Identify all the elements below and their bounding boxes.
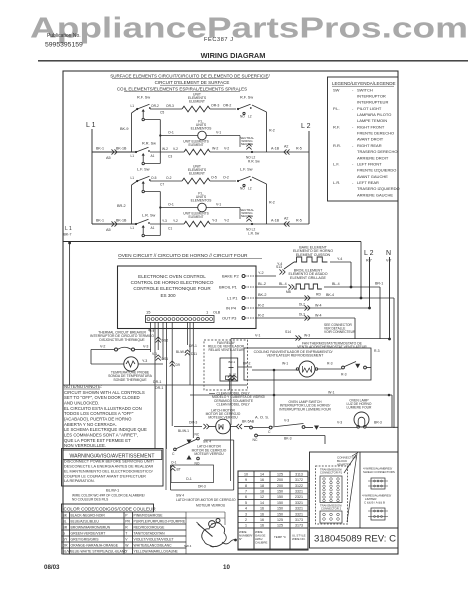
svg-text:VOIR CONNECTEUR: VOIR CONNECTEUR	[324, 330, 356, 334]
svg-text:LEFT FRONT: LEFT FRONT	[357, 161, 382, 166]
svg-text:L1: L1	[131, 226, 135, 230]
svg-text:ELEMENTOS: ELEMENTOS	[191, 198, 213, 202]
svg-text:L 1: L 1	[65, 226, 72, 232]
svg-text:OR-3: OR-3	[166, 104, 174, 108]
svg-text:Y-3: Y-3	[212, 219, 217, 223]
svg-text:NC: NC	[195, 433, 200, 437]
svg-text:200: 200	[277, 478, 283, 482]
svg-text:LUMIERE FOUR: LUMIERE FOUR	[347, 406, 373, 410]
svg-text:BL: BL	[63, 520, 67, 524]
switch routing loop	[144, 119, 160, 121]
svg-text:Y-2: Y-2	[224, 219, 229, 223]
svg-text:10: 10	[223, 564, 230, 571]
svg-text:TAN/TOSTADO/TAN: TAN/TOSTADO/TAN	[134, 532, 166, 536]
svg-text:OR: OR	[63, 544, 69, 548]
svg-text:FRENTE IZQUIERDO: FRENTE IZQUIERDO	[357, 168, 396, 173]
svg-text:CONNECTOR P1: CONNECTOR P1	[320, 471, 343, 475]
svg-text:C && B / A && B: C && B / A && B	[364, 501, 385, 505]
connector detail box	[310, 452, 399, 548]
latch switch box	[204, 439, 234, 441]
svg-text:L1: L1	[131, 104, 135, 108]
svg-text:V-2: V-2	[173, 147, 178, 151]
mouse foot	[210, 546, 216, 547]
svg-text:WHITE/BLANCO/BLANC: WHITE/BLANCO/BLANC	[134, 544, 173, 548]
svg-text:125: 125	[277, 472, 283, 476]
pointer lines	[344, 455, 356, 473]
svg-text:3321: 3321	[295, 507, 303, 511]
svg-text:L2: L2	[248, 115, 252, 119]
svg-text:A-1B: A-1B	[271, 147, 280, 151]
wire upper row	[150, 108, 182, 110]
svg-text:TRASERO IZQUIERDO: TRASERO IZQUIERDO	[357, 186, 400, 191]
wire DR-1 rail	[63, 384, 247, 386]
svg-text:16: 16	[260, 512, 264, 516]
svg-text:GREY/GRIS/GRIS: GREY/GRIS/GRIS	[71, 538, 100, 542]
svg-text:ELEMENT: ELEMENT	[188, 215, 203, 219]
svg-text:3321: 3321	[295, 512, 303, 516]
svg-text:18: 18	[260, 490, 264, 494]
svg-text:A. O. S.: A. O. S.	[255, 415, 269, 420]
color code table	[62, 512, 70, 518]
fan switch	[342, 366, 345, 369]
svg-text:ABIERTA Y NO CERRADA.: ABIERTA Y NO CERRADA.	[64, 422, 117, 427]
svg-text:RELAIS VENTILATEUR: RELAIS VENTILATEUR	[208, 348, 244, 352]
fan relay box	[204, 340, 248, 390]
svg-text:BK-3: BK-3	[284, 437, 292, 441]
svg-text:AVANT DROIT: AVANT DROIT	[357, 137, 384, 142]
wire L1 drop	[91, 129, 93, 224]
svg-text:COUPER LE COURANT AVANT D'EFFE: COUPER LE COURANT AVANT D'EFFECTUER	[64, 474, 146, 478]
svg-text:RD: RD	[316, 293, 321, 297]
svg-text:MOTEUR VERROU: MOTEUR VERROU	[208, 415, 238, 419]
svg-text:O-5: O-5	[151, 176, 157, 180]
svg-text:SWITCH: SWITCH	[357, 87, 373, 92]
wire relay to fan	[238, 366, 252, 368]
svg-text:R.R. Sw: R.R. Sw	[248, 160, 260, 164]
svg-text:125: 125	[277, 518, 283, 522]
svg-text:OVEN CIRCUIT // CIRCUITO DE HO: OVEN CIRCUIT // CIRCUITO DE HORNO // CIR…	[118, 253, 248, 259]
svg-text:DISCONNECT POWER BEFORE SERVIC: DISCONNECT POWER BEFORE SERVICING UNIT/	[64, 460, 155, 464]
svg-text:V-1: V-1	[149, 329, 154, 333]
svg-text:16: 16	[260, 518, 264, 522]
shield connector icon 1	[371, 478, 385, 489]
mouse tail	[222, 540, 236, 544]
latch drop wires	[230, 425, 232, 481]
svg-text:O-1: O-1	[168, 131, 174, 135]
fan thermostat wire	[231, 338, 390, 340]
svg-text:BK-9: BK-9	[120, 127, 128, 131]
svg-text:RED/ROJO/ROUGE: RED/ROJO/ROUGE	[134, 526, 166, 530]
junction arrows	[246, 144, 251, 147]
svg-text:GY: GY	[63, 538, 69, 542]
svg-text:L.F. Sw: L.F. Sw	[137, 168, 150, 172]
svg-text:3173: 3173	[295, 518, 303, 522]
svg-text:BR-1: BR-1	[229, 360, 236, 364]
svg-text:BL/W-1: BL/W-1	[106, 488, 120, 493]
svg-text:BL/W-1: BL/W-1	[178, 429, 189, 433]
wire R-2	[252, 177, 267, 184]
svg-text:A1: A1	[151, 154, 155, 158]
wire gauge header row	[238, 528, 254, 549]
svg-text:R-3: R-3	[341, 373, 347, 377]
cooling fan circuit box	[244, 348, 371, 380]
svg-text:L.R. Sw: L.R. Sw	[142, 214, 156, 218]
svg-text:R-2: R-2	[269, 129, 275, 133]
svg-text:CONTROLE ELECTRONIQUE FOUR: CONTROLE ELECTRONIQUE FOUR	[133, 286, 211, 291]
wire lower row	[92, 151, 136, 153]
svg-text:BR-2: BR-2	[117, 204, 126, 208]
breaker loop wire	[91, 349, 115, 351]
svg-text:WARNING/AVISO/AVERTISSEMENT: WARNING/AVISO/AVERTISSEMENT	[69, 454, 154, 460]
svg-text:EL MANTENIMIENTO DEL ELECTRODO: EL MANTENIMIENTO DEL ELECTRODOMESTICO/	[64, 469, 154, 473]
svg-text:BK-5AB: BK-5AB	[242, 420, 255, 424]
svg-text:MB: MB	[286, 290, 291, 294]
svg-text:L1: L1	[131, 154, 135, 158]
svg-text:5995395159: 5995395159	[45, 42, 83, 49]
wire bundle from strip	[150, 322, 152, 352]
svg-text:18: 18	[260, 484, 264, 488]
svg-text:NC: NC	[253, 438, 258, 442]
svg-text:ELEMENT: ELEMENT	[189, 100, 205, 104]
svg-text:SHIELD CONNECTORS: SHIELD CONNECTORS	[363, 470, 395, 474]
svg-text:16: 16	[260, 524, 264, 528]
wire lower mid	[150, 223, 184, 225]
svg-text:L 2: L 2	[364, 250, 374, 257]
svg-text:LAMPARA PILOTO: LAMPARA PILOTO	[357, 112, 391, 117]
svg-text:EL CIRCUITO ESTA ILLUSTRADO CO: EL CIRCUITO ESTA ILLUSTRADO CON	[64, 406, 142, 411]
svg-text:W-3: W-3	[304, 334, 310, 338]
svg-text:DS1: DS1	[162, 357, 169, 361]
svg-text:CALIBRE: CALIBRE	[255, 541, 267, 545]
svg-text:DL2: DL2	[299, 303, 305, 307]
svg-text:ELEMENT GRILLAGE: ELEMENT GRILLAGE	[290, 276, 326, 280]
latch NC line	[255, 434, 258, 437]
svg-text:ELEMENT: ELEMENT	[188, 143, 203, 147]
svg-text:R-5: R-5	[296, 147, 302, 151]
svg-text:FRENTE DERECHO: FRENTE DERECHO	[357, 131, 394, 136]
svg-text:A5: A5	[106, 228, 111, 232]
wire gauge table	[238, 471, 254, 477]
svg-text:LEFT REAR: LEFT REAR	[357, 180, 379, 185]
svg-text:14: 14	[260, 501, 264, 505]
svg-text:SURFACE ELEMENTS CIRCUIT/CIRCU: SURFACE ELEMENTS CIRCUIT/CIRCUITO DE ELE…	[110, 74, 270, 79]
svg-text:3113: 3113	[295, 472, 303, 476]
svg-text:PURPLE/PURPUREO-POURPRE: PURPLE/PURPUREO-POURPRE	[134, 520, 186, 524]
svg-text:TODOS LOS CONTROLES A "OFF": TODOS LOS CONTROLES A "OFF"	[64, 411, 134, 416]
svg-text:NO COULEUR DES FILS: NO COULEUR DES FILS	[72, 498, 108, 502]
svg-text:318045089 REV: C: 318045089 REV: C	[314, 534, 396, 544]
wire lower mid	[150, 151, 184, 153]
svg-text:R-3: R-3	[374, 349, 380, 353]
svg-text:CLEAN MODEL ONLY: CLEAN MODEL ONLY	[217, 403, 251, 407]
svg-text:W-4: W-4	[315, 304, 322, 308]
junction arrows	[246, 216, 251, 219]
svg-text:NOTE/NOTA/NOTE:: NOTE/NOTA/NOTE:	[64, 384, 102, 389]
svg-text:BK-1: BK-1	[96, 219, 104, 223]
svg-text:L 1: L 1	[86, 122, 96, 129]
svg-text:Y-3: Y-3	[142, 359, 147, 363]
svg-text:C1: C1	[168, 227, 172, 231]
wire R-2	[252, 105, 267, 112]
svg-text:150: 150	[277, 490, 283, 494]
svg-text:V-1: V-1	[216, 131, 221, 135]
svg-text:L.F.: L.F.	[333, 161, 339, 166]
svg-text:8: 8	[245, 484, 247, 488]
svg-text:OUT P3: OUT P3	[222, 316, 237, 321]
svg-text:R-7: R-7	[366, 259, 372, 263]
svg-text:CONNECTOR 2: CONNECTOR 2	[321, 507, 342, 511]
svg-text:O-2: O-2	[166, 176, 172, 180]
latch inner box D-1	[171, 465, 214, 483]
svg-text:O-2: O-2	[223, 176, 229, 180]
wire L2 drop	[308, 131, 310, 224]
svg-text:V-1: V-1	[152, 352, 157, 356]
svg-text:150: 150	[277, 512, 283, 516]
svg-text:R-2: R-2	[258, 314, 264, 318]
svg-text:2: 2	[245, 518, 247, 522]
svg-text:R-2: R-2	[269, 201, 275, 205]
svg-text:ELEMENT: ELEMENT	[189, 172, 205, 176]
legend box	[328, 77, 399, 201]
wire BK-9 vertical	[132, 109, 138, 113]
bundle connector marks	[156, 337, 161, 340]
svg-text:L.F. Sw: L.F. Sw	[240, 168, 253, 172]
transmission connector P1	[316, 466, 348, 524]
element coil upper	[182, 178, 210, 184]
svg-text:Y-2: Y-2	[258, 271, 264, 275]
svg-text:LAMPE TEMOIN: LAMPE TEMOIN	[357, 118, 387, 123]
shield connector icon 2	[371, 508, 385, 520]
svg-text:BL-4: BL-4	[279, 282, 287, 286]
svg-text:BLACK-NEGRO-NOIR: BLACK-NEGRO-NOIR	[71, 514, 106, 518]
lower switch arm contact	[142, 162, 144, 164]
svg-text:ARRIERE DROIT: ARRIERE DROIT	[357, 155, 389, 160]
svg-text:NO: NO	[240, 115, 245, 119]
svg-text:SW: SW	[333, 87, 340, 92]
svg-text:OR-2: OR-2	[151, 104, 159, 108]
svg-text:COIL ELEMENTS/ELEMENTS ESPIRAL: COIL ELEMENTS/ELEMENTS ESPIRAL/ELEMENTS …	[117, 87, 247, 92]
svg-text:7: 7	[245, 490, 247, 494]
svg-text:ORANGE-NARANJA-ORANGE: ORANGE-NARANJA-ORANGE	[71, 544, 119, 548]
svg-text:G: G	[63, 532, 66, 536]
svg-text:9: 9	[245, 478, 247, 482]
svg-text:5: 5	[245, 501, 247, 505]
svg-text:1: 1	[245, 524, 247, 528]
svg-text:R-2: R-2	[258, 304, 264, 308]
wire upper row	[150, 180, 182, 182]
svg-text:Y-4: Y-4	[277, 262, 282, 266]
svg-text:COLOR CODE/CODIGOS/CODE COULEU: COLOR CODE/CODIGOS/CODE COULEUR	[64, 507, 157, 512]
svg-text:W-2: W-2	[212, 147, 218, 151]
svg-text:AppliancePartsPros.com: AppliancePartsPros.com	[30, 13, 468, 45]
svg-text:BR: BR	[63, 526, 68, 530]
wire N drop	[389, 257, 391, 339]
mouse pencil	[198, 524, 213, 537]
svg-text:4: 4	[245, 507, 247, 511]
svg-text:BROWN/MARRON/BRUN: BROWN/MARRON/BRUN	[71, 526, 111, 530]
svg-text:DESCONECTE LA ENERGIA ANTES DE: DESCONECTE LA ENERGIA ANTES DE REALIZAR	[64, 465, 154, 469]
svg-text:OR-2: OR-2	[223, 104, 231, 108]
svg-text:S14: S14	[285, 330, 291, 334]
svg-text:WIRE NO.: WIRE NO.	[292, 537, 306, 541]
svg-text:R.F. Sw: R.F. Sw	[240, 96, 253, 100]
svg-text:BLUE/AZUL/BLEU: BLUE/AZUL/BLEU	[71, 520, 100, 524]
svg-text:L2: L2	[248, 187, 252, 191]
svg-text:SW 4: SW 4	[184, 544, 192, 548]
cooling fan motor M	[252, 369, 299, 371]
svg-text:DM-3: DM-3	[189, 421, 197, 425]
svg-text:200: 200	[277, 484, 283, 488]
svg-text:NO: NO	[240, 187, 245, 191]
svg-text:V-7: V-7	[386, 259, 391, 263]
element coil upper	[182, 106, 210, 112]
svg-text:MOTEUR VERROU: MOTEUR VERROU	[194, 452, 224, 456]
svg-text:N°: N°	[239, 537, 242, 541]
svg-text:INTERRUPTEUR LUMIERE FOUR: INTERRUPTEUR LUMIERE FOUR	[279, 407, 331, 411]
svg-text:150: 150	[277, 501, 283, 505]
svg-text:LA REPARATION.: LA REPARATION.	[64, 479, 95, 483]
svg-text:OLB: OLB	[213, 311, 221, 315]
svg-text:V-2: V-2	[224, 147, 229, 151]
svg-text:AVANT GAUCHE: AVANT GAUCHE	[357, 174, 388, 179]
svg-text:BK-1: BK-1	[96, 147, 104, 151]
svg-text:6: 6	[245, 495, 247, 499]
svg-text:DR-3: DR-3	[198, 485, 206, 489]
svg-text:Y-2: Y-2	[173, 219, 178, 223]
svg-text:QUE LA PORTE EST FERMEE ET: QUE LA PORTE EST FERMEE ET	[64, 438, 131, 443]
svg-text:PINK/ROSA/ROSE: PINK/ROSA/ROSE	[134, 514, 164, 518]
svg-text:DL3: DL3	[299, 313, 305, 317]
svg-text:10: 10	[244, 472, 248, 476]
fan relay	[220, 358, 238, 381]
switch routing loop	[144, 191, 160, 193]
svg-text:P.L.: P.L.	[333, 106, 340, 111]
svg-text:D-1: D-1	[186, 477, 192, 481]
svg-text:125: 125	[277, 524, 283, 528]
svg-text:SET TO "OFF", OVEN DOOR CLOSED: SET TO "OFF", OVEN DOOR CLOSED	[64, 395, 140, 400]
note right edge	[165, 385, 167, 490]
svg-text:LATCH MOTOR-MOTOR DE CERROJO: LATCH MOTOR-MOTOR DE CERROJO	[176, 498, 236, 502]
mouse head	[209, 521, 216, 528]
svg-text:T: T	[125, 532, 127, 536]
svg-text:150: 150	[277, 495, 283, 499]
svg-text:BL/W-1: BL/W-1	[176, 350, 187, 354]
svg-text:O-5: O-5	[211, 176, 217, 180]
svg-text:3122: 3122	[295, 484, 303, 488]
svg-text:BK-1B: BK-1B	[116, 147, 127, 151]
temperature probe	[124, 357, 138, 371]
svg-text:BR-3: BR-3	[374, 421, 382, 425]
svg-text:W-1: W-1	[282, 362, 288, 366]
svg-text:2321: 2321	[295, 495, 303, 499]
svg-text:INTERRUPTOR: INTERRUPTOR	[357, 93, 386, 98]
svg-text:L1: L1	[131, 176, 135, 180]
svg-text:L 2: L 2	[301, 123, 311, 130]
svg-text:W-4: W-4	[315, 314, 322, 318]
svg-text:BK-7: BK-7	[64, 233, 72, 237]
wire W-4	[256, 307, 370, 309]
svg-text:O-1: O-1	[168, 203, 174, 207]
svg-text:V-1: V-1	[216, 203, 221, 207]
svg-text:A2: A2	[284, 217, 288, 221]
svg-text:VENTILATEUR REFROIDISSEMENT: VENTILATEUR REFROIDISSEMENT	[267, 354, 324, 358]
wire L2 oven drop	[369, 257, 371, 308]
svg-text:BROIL P1: BROIL P1	[219, 285, 238, 290]
svg-text:15: 15	[146, 310, 151, 315]
switch arm contact	[142, 118, 144, 120]
svg-text:N: N	[386, 250, 391, 257]
svg-text:R.F.: R.F.	[333, 124, 340, 129]
svg-text:L.R.: L.R.	[333, 180, 340, 185]
svg-text:BLUE-WHITE STRIPE/AZUL-BLANC: BLUE-WHITE STRIPE/AZUL-BLANC	[71, 550, 128, 554]
main diagram frame	[63, 71, 398, 554]
svg-text:R-5: R-5	[296, 219, 302, 223]
wire BK-9 vertical	[132, 181, 138, 185]
latch motor M1	[216, 419, 231, 434]
svg-text:DR-1: DR-1	[155, 386, 163, 390]
svg-text:14: 14	[260, 472, 264, 476]
svg-text:WIRING DIAGRAM: WIRING DIAGRAM	[201, 51, 266, 60]
svg-text:C3: C3	[168, 155, 172, 159]
svg-text:OR-3: OR-3	[211, 104, 219, 108]
svg-text:C7: C7	[160, 183, 164, 187]
svg-text:NON VERROUILLEE.: NON VERROUILLEE.	[64, 443, 106, 448]
electronic oven control box U1	[118, 266, 257, 329]
svg-text:Sw. 4: Sw. 4	[203, 440, 211, 444]
svg-text:YELLOW/AMARILLO/JAUNE: YELLOW/AMARILLO/JAUNE	[134, 550, 179, 554]
svg-text:LE SCHEMA ELECTRIQUE INDIQUE Q: LE SCHEMA ELECTRIQUE INDIQUE QUE	[64, 427, 147, 432]
svg-text:08/03: 08/03	[44, 564, 60, 571]
svg-text:FEC387 J: FEC387 J	[204, 37, 234, 43]
svg-text:C5: C5	[160, 111, 164, 115]
svg-text:BK-4: BK-4	[326, 293, 334, 297]
svg-text:BK-2: BK-2	[258, 293, 266, 297]
svg-text:L1 P1: L1 P1	[227, 296, 238, 301]
svg-text:R.R. Sw: R.R. Sw	[142, 142, 156, 146]
wire OUT	[256, 317, 355, 319]
svg-text:PR: PR	[125, 520, 130, 524]
svg-text:SONDE THERMIQUE: SONDE THERMIQUE	[113, 378, 147, 382]
svg-text:Y-4: Y-4	[337, 257, 342, 261]
svg-text:RIGHT REAR: RIGHT REAR	[357, 143, 382, 148]
svg-text:GREEN-VERDE/VERT: GREEN-VERDE/VERT	[71, 532, 106, 536]
header rule	[38, 60, 468, 62]
svg-text:A2: A2	[284, 145, 288, 149]
svg-text:ES 300: ES 300	[160, 293, 176, 298]
svg-text:BK-1B: BK-1B	[116, 219, 127, 223]
svg-text:12: 12	[260, 495, 264, 499]
mouse cartoon body	[202, 523, 227, 547]
svg-text:DISJONCTEUR THERMIQUE: DISJONCTEUR THERMIQUE	[99, 338, 145, 342]
svg-text:D11: D11	[191, 352, 197, 356]
lower switch arm contact	[142, 234, 144, 236]
svg-text:PILOT LIGHT: PILOT LIGHT	[357, 106, 382, 111]
svg-text:16: 16	[260, 507, 264, 511]
wire lower row	[92, 223, 136, 225]
connector marks on drops	[228, 375, 233, 378]
mouse ear	[216, 519, 220, 523]
wire BK-4	[256, 297, 394, 299]
svg-text:(ACABADO), PUERTA DE HORNO: (ACABADO), PUERTA DE HORNO	[64, 416, 132, 421]
svg-text:A-1B: A-1B	[271, 219, 280, 223]
switch arm contact	[142, 190, 144, 192]
svg-text:L.R. Sw: L.R. Sw	[248, 232, 260, 236]
svg-text:A1: A1	[151, 226, 155, 230]
svg-text:VENTILADOR/THERMOSTAT VENTILAT: VENTILADOR/THERMOSTAT VENTILATEUR	[297, 345, 367, 349]
svg-text:CONTROL DE HORNO ELECTRONICO: CONTROL DE HORNO ELECTRONICO	[131, 280, 214, 285]
svg-text:V-2: V-2	[100, 345, 105, 349]
svg-text:3172: 3172	[295, 478, 303, 482]
